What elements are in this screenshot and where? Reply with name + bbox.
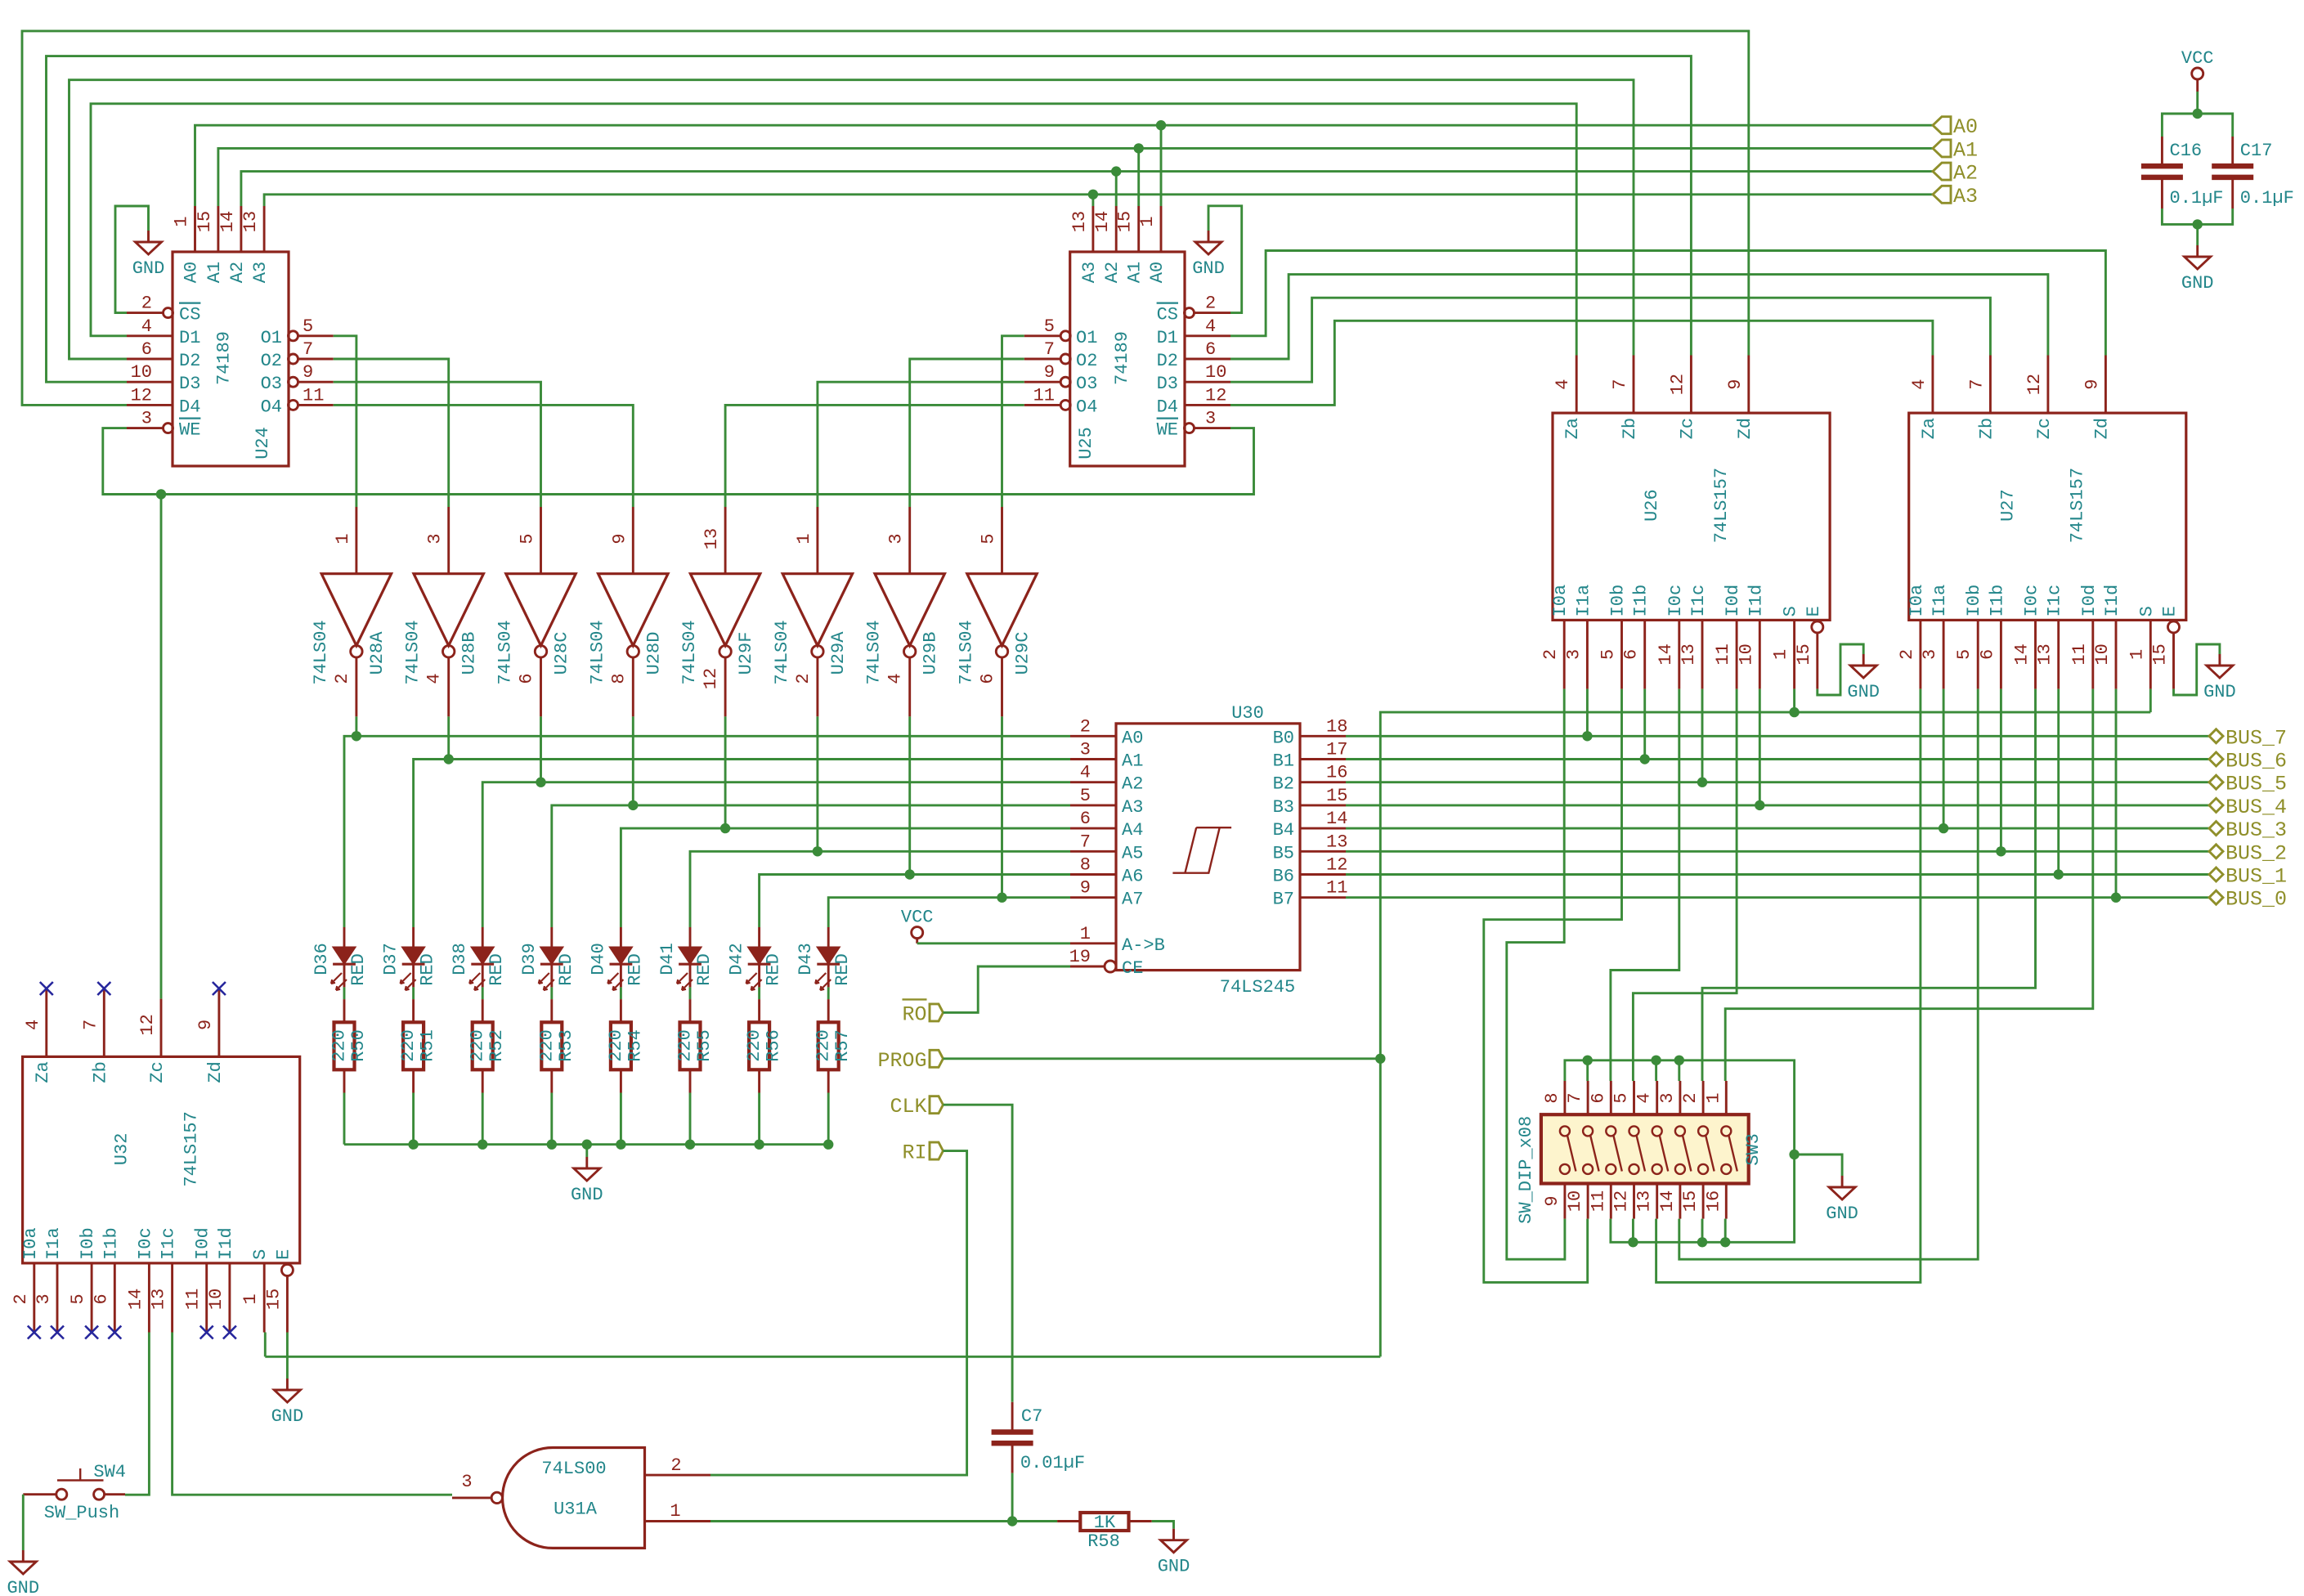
junction: [1651, 1056, 1661, 1065]
svg-text:U29F: U29F: [736, 632, 756, 675]
wire U26 E to GND: [1818, 644, 1863, 695]
U32 pin 7 Zb: [103, 989, 105, 1056]
U27 pin 1 S: [2149, 620, 2152, 688]
NAND gate U31A 74LS00 (mirrored): [503, 1448, 645, 1549]
SW3 pin 3 (top): [1679, 1081, 1681, 1114]
svg-text:I0d: I0d: [2079, 585, 2100, 617]
LED D38 RED: [482, 927, 484, 947]
junction: [1628, 1237, 1638, 1247]
wire U27 I1c to B6: [2057, 689, 2060, 875]
svg-text:74LS00: 74LS00: [541, 1459, 606, 1479]
svg-text:9: 9: [1044, 362, 1055, 383]
svg-text:BUS_2: BUS_2: [2226, 841, 2287, 865]
wire U24 D2 to U26 Zb: [69, 80, 1634, 359]
svg-text:1: 1: [333, 533, 353, 544]
svg-text:O1: O1: [1076, 328, 1097, 348]
svg-text:220: 220: [814, 1029, 834, 1062]
U27 pin 6 I1b: [2000, 620, 2002, 688]
svg-text:D43: D43: [796, 943, 816, 975]
wire net A3: [264, 195, 1933, 206]
U27 pin 10 I1d: [2115, 620, 2118, 688]
hierarchical label CLK: [930, 1096, 944, 1114]
svg-text:220: 220: [398, 1029, 419, 1062]
svg-text:Zd: Zd: [205, 1061, 226, 1083]
wire net BUS_0: [1346, 896, 2209, 899]
U31A pin 3 (output): [452, 1496, 491, 1499]
svg-text:1: 1: [2127, 649, 2147, 660]
junction U28D out: [628, 800, 638, 810]
svg-text:RED: RED: [832, 953, 853, 986]
svg-text:BUS_0: BUS_0: [2226, 888, 2287, 912]
svg-text:D4: D4: [1157, 397, 1178, 417]
svg-text:74LS04: 74LS04: [772, 620, 792, 684]
svg-text:C7: C7: [1021, 1406, 1042, 1427]
svg-text:7: 7: [1044, 339, 1055, 360]
svg-text:7: 7: [80, 1020, 101, 1030]
U30 pin 16 B2: [1300, 781, 1346, 783]
svg-text:A0: A0: [1122, 728, 1143, 748]
svg-text:O3: O3: [1076, 374, 1097, 394]
svg-text:U27: U27: [1998, 489, 2019, 522]
svg-text:RED: RED: [418, 953, 438, 986]
wire U26 I1a to B0: [1586, 689, 1589, 737]
svg-text:220: 220: [606, 1029, 626, 1062]
svg-text:14: 14: [125, 1289, 146, 1310]
wire U25 A0 riser: [1160, 125, 1163, 206]
ground GND (SW4): [10, 1550, 36, 1574]
wire U25 D1 to U27 Zd: [1230, 251, 2105, 356]
wire net A0: [195, 125, 1934, 206]
svg-text:I0c: I0c: [2022, 585, 2042, 617]
svg-text:7: 7: [1565, 1092, 1585, 1103]
svg-text:74LS157: 74LS157: [2068, 468, 2088, 543]
wire U24 D3 to U26 Zc: [47, 56, 1692, 383]
capacitor C17 0.1uF: [2231, 137, 2234, 166]
U24 pin 6 D2: [127, 358, 173, 361]
svg-text:GND: GND: [132, 258, 165, 279]
U32 pin 12 Zc: [160, 999, 163, 1057]
wire U26 S down: [1793, 689, 1795, 713]
SW3 pin 15 (bottom): [1702, 1184, 1705, 1219]
svg-text:B1: B1: [1273, 751, 1294, 772]
svg-text:13: 13: [1634, 1190, 1655, 1212]
U31A pin 1 (input): [645, 1520, 711, 1522]
wire U24 O1 to U28A in: [334, 336, 356, 507]
svg-text:O4: O4: [261, 397, 282, 417]
svg-text:I1c: I1c: [2045, 585, 2065, 617]
svg-text:D3: D3: [1157, 374, 1178, 394]
wire: [620, 987, 622, 999]
svg-text:6: 6: [141, 339, 152, 360]
svg-text:A0: A0: [1953, 115, 1978, 139]
wire U32 I0c to SW4: [125, 1333, 149, 1495]
svg-text:14: 14: [1326, 809, 1347, 829]
wire RI to U31A pin2: [710, 1151, 967, 1476]
svg-text:E: E: [2160, 606, 2181, 616]
svg-text:U30: U30: [1231, 703, 1264, 724]
junction VCC node: [2193, 109, 2203, 119]
svg-text:7: 7: [303, 339, 313, 360]
svg-text:CLK: CLK: [890, 1095, 926, 1119]
U30 buffer glyph: [1172, 827, 1231, 872]
svg-text:74LS157: 74LS157: [1711, 468, 1732, 543]
svg-text:R58: R58: [1087, 1531, 1120, 1552]
U26 pin 5 I0b: [1620, 620, 1623, 688]
svg-text:BUS_1: BUS_1: [2226, 865, 2287, 889]
svg-text:14: 14: [2012, 643, 2033, 665]
svg-text:3: 3: [141, 409, 152, 429]
svg-text:74LS04: 74LS04: [495, 620, 516, 684]
svg-text:RO: RO: [902, 1002, 926, 1026]
svg-text:74LS04: 74LS04: [587, 620, 607, 684]
svg-text:SW_DIP_x08: SW_DIP_x08: [1516, 1116, 1536, 1224]
wire: [724, 716, 727, 828]
junction B7: [2111, 893, 2121, 903]
wire: [344, 1143, 828, 1145]
svg-text:A1: A1: [1125, 262, 1145, 283]
svg-text:9: 9: [1725, 379, 1746, 389]
svg-text:16: 16: [1703, 1190, 1724, 1212]
svg-text:11: 11: [1033, 385, 1055, 406]
inverter U29C 74LS04: [1001, 507, 1003, 574]
svg-text:3: 3: [1657, 1092, 1678, 1103]
svg-text:13: 13: [240, 211, 261, 232]
hierarchical label BUS_2: [2209, 845, 2223, 859]
hierarchical label A1: [1933, 140, 1951, 157]
resistor R51 220: [412, 999, 415, 1022]
svg-text:18: 18: [1326, 716, 1347, 737]
wire WE net U24-U25: [103, 428, 1254, 495]
U32 pin 2 I0a: [33, 1263, 35, 1333]
junction U29A out: [813, 846, 823, 856]
junction B2: [1697, 778, 1707, 787]
svg-text:A0: A0: [1147, 262, 1168, 283]
svg-text:R56: R56: [764, 1029, 784, 1062]
U25 pin 11 O4: [1060, 400, 1070, 410]
svg-text:4: 4: [1080, 763, 1091, 783]
wire SW3 top gnd stub: [1655, 1060, 1657, 1081]
svg-text:12: 12: [131, 385, 152, 406]
svg-text:I1c: I1c: [1688, 585, 1709, 617]
SW3 pin 16 (bottom): [1725, 1184, 1728, 1219]
U25 pin 1 A0: [1160, 206, 1163, 252]
svg-text:U29A: U29A: [828, 631, 849, 675]
svg-text:BUS_4: BUS_4: [2226, 796, 2287, 819]
svg-text:BUS_7: BUS_7: [2226, 726, 2287, 750]
svg-text:74LS04: 74LS04: [403, 620, 424, 684]
inverter U28A 74LS04: [355, 507, 357, 574]
wire: [343, 987, 346, 999]
wire: [1152, 1522, 1174, 1529]
svg-text:13: 13: [702, 528, 722, 549]
wire net INV4 to U30 A4: [621, 828, 1070, 927]
ground GND (R58): [1161, 1529, 1187, 1553]
resistor R55 220: [689, 999, 692, 1022]
svg-text:D2: D2: [1157, 351, 1178, 371]
U25 pin 7 O2: [1060, 354, 1070, 364]
svg-text:I0c: I0c: [135, 1227, 155, 1260]
svg-text:O4: O4: [1076, 397, 1097, 417]
U30 pin 12 B6: [1300, 873, 1346, 876]
junction U29F out: [720, 823, 730, 833]
wire net INV2 to U30 A2: [482, 782, 1070, 927]
svg-text:Zb: Zb: [1976, 418, 1997, 439]
U30 pin 5 A3: [1070, 804, 1116, 806]
svg-text:13: 13: [1679, 643, 1699, 665]
svg-text:14: 14: [1092, 211, 1113, 232]
U32 pin 6 I1b: [114, 1263, 116, 1333]
wire net INV5 to U30 A5: [690, 851, 1070, 927]
svg-text:R50: R50: [348, 1029, 369, 1062]
junction A1: [1134, 143, 1144, 153]
svg-text:11: 11: [2069, 643, 2090, 665]
svg-text:RED: RED: [694, 953, 715, 986]
svg-text:2: 2: [1540, 649, 1561, 660]
multiplexer U26 74LS157 body: [1553, 413, 1830, 620]
U26 pin 11 I0d: [1736, 620, 1738, 688]
wire SW3 top gnd stub: [1678, 1060, 1680, 1081]
svg-text:A3: A3: [1079, 262, 1100, 283]
svg-text:15: 15: [263, 1289, 284, 1310]
hierarchical label BUS_3: [2209, 822, 2223, 836]
svg-text:2: 2: [1897, 649, 1917, 660]
svg-text:D1: D1: [179, 328, 200, 348]
svg-text:12: 12: [1611, 1190, 1632, 1212]
wire: [1011, 1473, 1014, 1522]
svg-text:10: 10: [206, 1289, 226, 1310]
svg-text:D42: D42: [727, 943, 747, 975]
svg-text:GND: GND: [271, 1406, 304, 1427]
svg-text:5: 5: [1044, 316, 1055, 337]
U25 pin 12 D4: [1185, 404, 1230, 406]
U26 pin 6 I1b: [1643, 620, 1646, 688]
LED D41 RED: [689, 927, 692, 947]
svg-text:O2: O2: [1076, 351, 1097, 371]
svg-text:2: 2: [793, 673, 814, 684]
junction WE / U32 Zc: [156, 489, 166, 499]
wire U24 O2 to U28B in: [334, 359, 449, 507]
junction R55 bus: [685, 1140, 695, 1150]
U30 pin 4 A2: [1070, 781, 1116, 783]
wire net BUS_2: [1346, 850, 2209, 853]
svg-text:0.1µF: 0.1µF: [2240, 188, 2294, 208]
svg-text:3: 3: [1563, 649, 1584, 660]
U26 pin 14 I0c: [1678, 620, 1680, 688]
SW3 switch element 5: [1652, 1126, 1662, 1136]
wire U26 I0a to SW3 pin9: [1507, 689, 1565, 1260]
svg-text:74LS157: 74LS157: [182, 1111, 202, 1186]
ground GND (U25 CS): [1195, 231, 1221, 254]
SW3 pin 12 (bottom): [1633, 1184, 1635, 1219]
hierarchical label BUS_1: [2209, 867, 2223, 881]
svg-text:GND: GND: [1826, 1204, 1858, 1224]
svg-text:9: 9: [1080, 878, 1091, 899]
junction R51 bus: [408, 1140, 418, 1150]
svg-text:U28C: U28C: [552, 632, 572, 675]
hierarchical label A2: [1933, 163, 1951, 180]
junction B1: [1640, 754, 1650, 764]
svg-text:I0d: I0d: [193, 1227, 213, 1260]
svg-text:D1: D1: [1157, 328, 1178, 348]
svg-text:B2: B2: [1273, 774, 1294, 795]
svg-text:14: 14: [1656, 643, 1676, 665]
resistor R58 1K: [1057, 1520, 1080, 1522]
U32 pin 9 Zd: [217, 989, 220, 1056]
U26 pin 13 I1c: [1701, 620, 1704, 688]
svg-text:A3: A3: [250, 262, 271, 283]
svg-text:I1a: I1a: [1573, 585, 1594, 617]
svg-text:11: 11: [1588, 1190, 1608, 1212]
wire net A1: [218, 148, 1933, 206]
U32 pin 5 I0b: [91, 1263, 93, 1333]
U32 pin 15 E: [281, 1264, 293, 1275]
SW3 pin 9 (bottom): [1563, 1184, 1566, 1219]
U32 pin 14 I0c: [148, 1263, 150, 1333]
svg-text:U29C: U29C: [1013, 632, 1033, 675]
svg-text:10: 10: [131, 362, 152, 383]
svg-text:A1: A1: [1953, 138, 1978, 162]
wire: [412, 987, 415, 999]
svg-text:BUS_3: BUS_3: [2226, 818, 2287, 842]
junction U29C out: [997, 893, 1006, 903]
junction B6: [2054, 869, 2064, 879]
U24 pin 5 O1: [289, 331, 298, 341]
svg-text:13: 13: [2035, 643, 2055, 665]
U27 pin 4 Za: [1931, 356, 1934, 414]
junction R56 bus: [754, 1140, 764, 1150]
junction cap GND node: [2193, 219, 2203, 229]
wire U25 D3 to U27 Zb: [1230, 298, 1990, 382]
svg-text:6: 6: [1588, 1092, 1608, 1103]
svg-text:5: 5: [1598, 649, 1619, 660]
wire cap node to GND: [2196, 224, 2199, 245]
junction C7/R58/U31A: [1007, 1516, 1017, 1526]
U27 pin 12 Zc: [2046, 356, 2049, 414]
svg-text:A5: A5: [1122, 843, 1143, 863]
svg-text:12: 12: [1667, 374, 1688, 395]
wire: [22, 1495, 25, 1550]
svg-text:I1b: I1b: [1631, 585, 1652, 617]
U27 pin 2 I0a: [1919, 620, 1921, 688]
svg-text:D4: D4: [179, 397, 200, 417]
wire U26 I0b to SW3 pin10: [1484, 689, 1622, 1283]
svg-text:4: 4: [1553, 379, 1573, 389]
svg-text:12: 12: [1326, 855, 1347, 876]
U26 pin 4 Za: [1576, 356, 1578, 414]
wire U27 I1d to B7: [2115, 689, 2118, 898]
wire SW3 gnd to GND symbol: [1795, 1154, 1843, 1176]
svg-text:RED: RED: [625, 953, 645, 986]
SW3 pin 4 (top): [1656, 1081, 1658, 1114]
wire SW3 bottom gnd stub: [1632, 1219, 1634, 1243]
ground GND (U27 E): [2207, 654, 2233, 678]
svg-text:16: 16: [1326, 763, 1347, 783]
LED D43 RED: [827, 927, 830, 947]
U25 pin 15 A1: [1137, 206, 1140, 252]
junction: [1583, 1056, 1593, 1065]
svg-text:220: 220: [536, 1029, 557, 1062]
hierarchical label BUS_0: [2209, 890, 2223, 904]
wire U25 A2 riser: [1115, 172, 1118, 206]
svg-text:U28B: U28B: [459, 632, 480, 675]
wire U32 S drop: [264, 1333, 267, 1357]
U26 pin 1 S: [1793, 620, 1795, 688]
hierarchical label BUS_7: [2209, 729, 2223, 743]
svg-text:15: 15: [1115, 211, 1136, 232]
svg-text:1K: 1K: [1094, 1513, 1116, 1533]
svg-text:Za: Za: [1562, 418, 1583, 439]
svg-text:I1a: I1a: [43, 1227, 64, 1260]
svg-text:4: 4: [885, 673, 906, 684]
hierarchical label PROG: [930, 1050, 944, 1067]
inverter U28B 74LS04: [447, 507, 450, 574]
wire U26 I1b to B1: [1643, 689, 1646, 760]
U30 pin 8 A6: [1070, 873, 1116, 876]
svg-text:7: 7: [1080, 832, 1091, 852]
wire U24 CS to GND: [115, 206, 149, 313]
svg-text:D40: D40: [588, 943, 608, 975]
svg-text:U26: U26: [1642, 489, 1662, 522]
svg-text:SW3: SW3: [1743, 1133, 1764, 1166]
junction B5: [1996, 846, 2006, 856]
wire net BUS_3: [1346, 827, 2209, 830]
wire: [412, 1093, 415, 1145]
svg-text:BUS_5: BUS_5: [2226, 773, 2287, 796]
U27 pin 5 I0b: [1977, 620, 1979, 688]
junction B4: [1939, 823, 1948, 833]
svg-text:I1d: I1d: [216, 1227, 236, 1260]
svg-text:RI: RI: [902, 1141, 926, 1165]
U25 pin 2 CS: [1194, 312, 1230, 314]
wire U24 D4 to U26 Zd: [22, 31, 1749, 406]
svg-text:6: 6: [1977, 649, 1997, 660]
svg-text:U24: U24: [253, 427, 273, 460]
svg-text:2: 2: [141, 294, 152, 314]
wire U25 CS to GND: [1208, 206, 1242, 313]
U24 pin 13 A3: [263, 206, 266, 252]
hierarchical label RI: [930, 1142, 944, 1159]
svg-text:CE: CE: [1122, 958, 1143, 979]
wire U27 I0c to SW3 pin2: [1702, 689, 2036, 1081]
wire U24 D1 to U26 Za: [91, 104, 1576, 356]
RAM U24 74189 body: [173, 252, 289, 466]
svg-text:B7: B7: [1273, 890, 1294, 910]
junction U28B out: [444, 754, 454, 764]
wire U26 I0d to SW3 pin5: [1633, 689, 1737, 1081]
wire: [689, 1093, 692, 1145]
svg-text:12: 12: [701, 668, 721, 689]
LED D39 RED: [550, 927, 553, 947]
svg-text:I1d: I1d: [1746, 585, 1766, 617]
U30 pin 9 A7: [1070, 896, 1116, 899]
svg-text:B3: B3: [1273, 797, 1294, 818]
svg-text:14: 14: [1657, 1190, 1678, 1212]
U30 pin 7 A5: [1070, 850, 1116, 853]
svg-text:R52: R52: [486, 1029, 507, 1062]
inverter U28D 74LS04: [632, 507, 634, 574]
svg-text:220: 220: [329, 1029, 350, 1062]
svg-text:2: 2: [670, 1455, 681, 1476]
svg-text:3: 3: [1205, 409, 1216, 429]
svg-text:1: 1: [1137, 216, 1158, 226]
svg-text:I0a: I0a: [1907, 585, 1927, 617]
svg-text:C17: C17: [2240, 141, 2273, 161]
svg-text:O2: O2: [261, 351, 282, 371]
U30 pin 14 B4: [1300, 827, 1346, 830]
junction A0: [1156, 120, 1166, 130]
svg-text:Zb: Zb: [1620, 418, 1640, 439]
svg-text:B5: B5: [1273, 843, 1294, 863]
